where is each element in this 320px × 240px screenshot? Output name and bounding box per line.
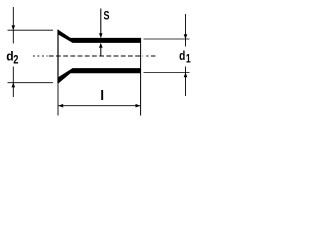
S dimension line upper [100,9,102,35]
d2 extension line bottom [8,82,54,84]
d2 arrow top [12,25,16,30]
l dimension line [59,105,141,107]
d1 dimension line [185,14,187,96]
l arrow left [58,104,63,108]
svg-text:l: l [100,87,104,103]
centerline [33,55,155,57]
tube end face line + l right extension line [140,38,142,116]
l left extension line [57,84,59,116]
rivet lower wall section [58,68,141,84]
d1 extension line top [144,38,190,40]
d2 extension line top [8,29,54,31]
flange face line [57,30,59,84]
d2 arrow bottom [12,83,16,88]
rivet upper wall section [58,30,141,43]
d1 arrow bottom [184,72,188,77]
svg-text:d: d [179,48,185,63]
S dimension line lower [100,47,102,55]
S arrow down [99,33,103,38]
l arrow right [136,104,141,108]
S arrow up [99,43,103,48]
svg-text:1: 1 [186,53,191,65]
d1 arrow top [184,34,188,39]
d2 dimension line [12,7,14,97]
svg-text:S: S [104,10,110,22]
svg-text:2: 2 [13,54,18,66]
d1 extension line bottom [144,72,190,74]
